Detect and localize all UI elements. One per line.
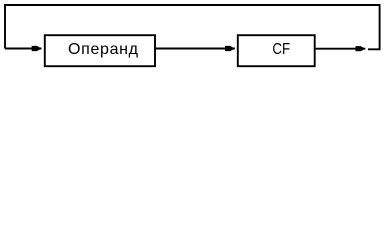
box Операнд — [45, 35, 155, 66]
box CF — [238, 35, 315, 66]
wire arrow Операнд to CF — [156, 48, 235, 50]
svg-text:Операнд: Операнд — [68, 41, 139, 58]
wire feedback loop (right vertical, top run, left vertical) — [5, 5, 380, 49]
wire arrow out of CF — [315, 48, 365, 50]
svg-text:CF: CF — [272, 41, 290, 58]
wire arrow into Операнд box — [5, 48, 42, 50]
